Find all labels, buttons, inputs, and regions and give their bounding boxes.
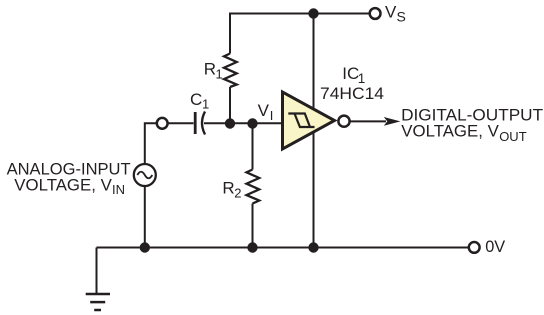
terminal input	[157, 118, 168, 129]
wire output line	[350, 120, 386, 122]
resistor R1	[224, 54, 237, 88]
terminal 0V	[469, 242, 480, 253]
svg-text:2: 2	[234, 185, 241, 200]
svg-text:0V: 0V	[485, 237, 506, 256]
node junction dot R2-ground	[247, 242, 257, 252]
op-amp U1 inverter 74HC14	[283, 92, 335, 149]
source VIN (AC)	[134, 164, 156, 186]
wire terminal to capacitor	[167, 122, 194, 124]
svg-text:V: V	[258, 101, 270, 120]
svg-text:R: R	[222, 179, 234, 198]
svg-text:VOLTAGE, V: VOLTAGE, V	[401, 121, 499, 140]
wire source to ground rail	[144, 186, 146, 248]
svg-text:OUT: OUT	[499, 129, 527, 144]
inverter output bubble	[338, 116, 349, 127]
label R2	[222, 179, 241, 201]
wire ground stem	[96, 248, 98, 294]
svg-text:R: R	[204, 59, 216, 78]
resistor R2	[247, 170, 260, 204]
terminal VS	[370, 8, 381, 19]
label IC1	[342, 64, 365, 86]
svg-text:V: V	[385, 2, 397, 21]
node junction dot source-ground	[140, 242, 150, 252]
wire input left branch	[145, 123, 158, 163]
svg-text:I: I	[270, 108, 274, 123]
wire top rail	[230, 14, 370, 54]
wire R1 bottom to node	[229, 87, 231, 124]
wire capacitor to inverter input	[204, 122, 282, 124]
label C1	[190, 90, 209, 112]
label VI	[258, 101, 274, 123]
node junction dot VI/R2	[247, 118, 257, 128]
wire supply vertical VS-to-0V	[313, 14, 315, 248]
arrowhead output	[384, 117, 401, 126]
label VS	[385, 2, 406, 24]
svg-text:S: S	[397, 8, 406, 24]
wire ground rail	[97, 247, 469, 249]
svg-text:1: 1	[216, 66, 223, 81]
node junction dot supply-ground	[308, 242, 318, 252]
wire R2 top	[252, 124, 254, 170]
label digital output	[401, 106, 543, 144]
svg-text:1: 1	[202, 97, 209, 112]
node junction dot top rail	[308, 8, 318, 18]
label analog input	[7, 159, 131, 197]
svg-text:C: C	[190, 90, 202, 109]
svg-text:IN: IN	[112, 182, 125, 197]
label R1	[204, 59, 223, 81]
svg-text:VOLTAGE, V: VOLTAGE, V	[14, 175, 112, 194]
capacitor C1	[195, 112, 205, 135]
hysteresis symbol	[288, 114, 314, 128]
svg-text:74HC14: 74HC14	[320, 84, 384, 103]
node junction dot R1/C1	[225, 118, 235, 128]
ground	[86, 294, 110, 310]
wire R2 bottom	[252, 204, 254, 248]
